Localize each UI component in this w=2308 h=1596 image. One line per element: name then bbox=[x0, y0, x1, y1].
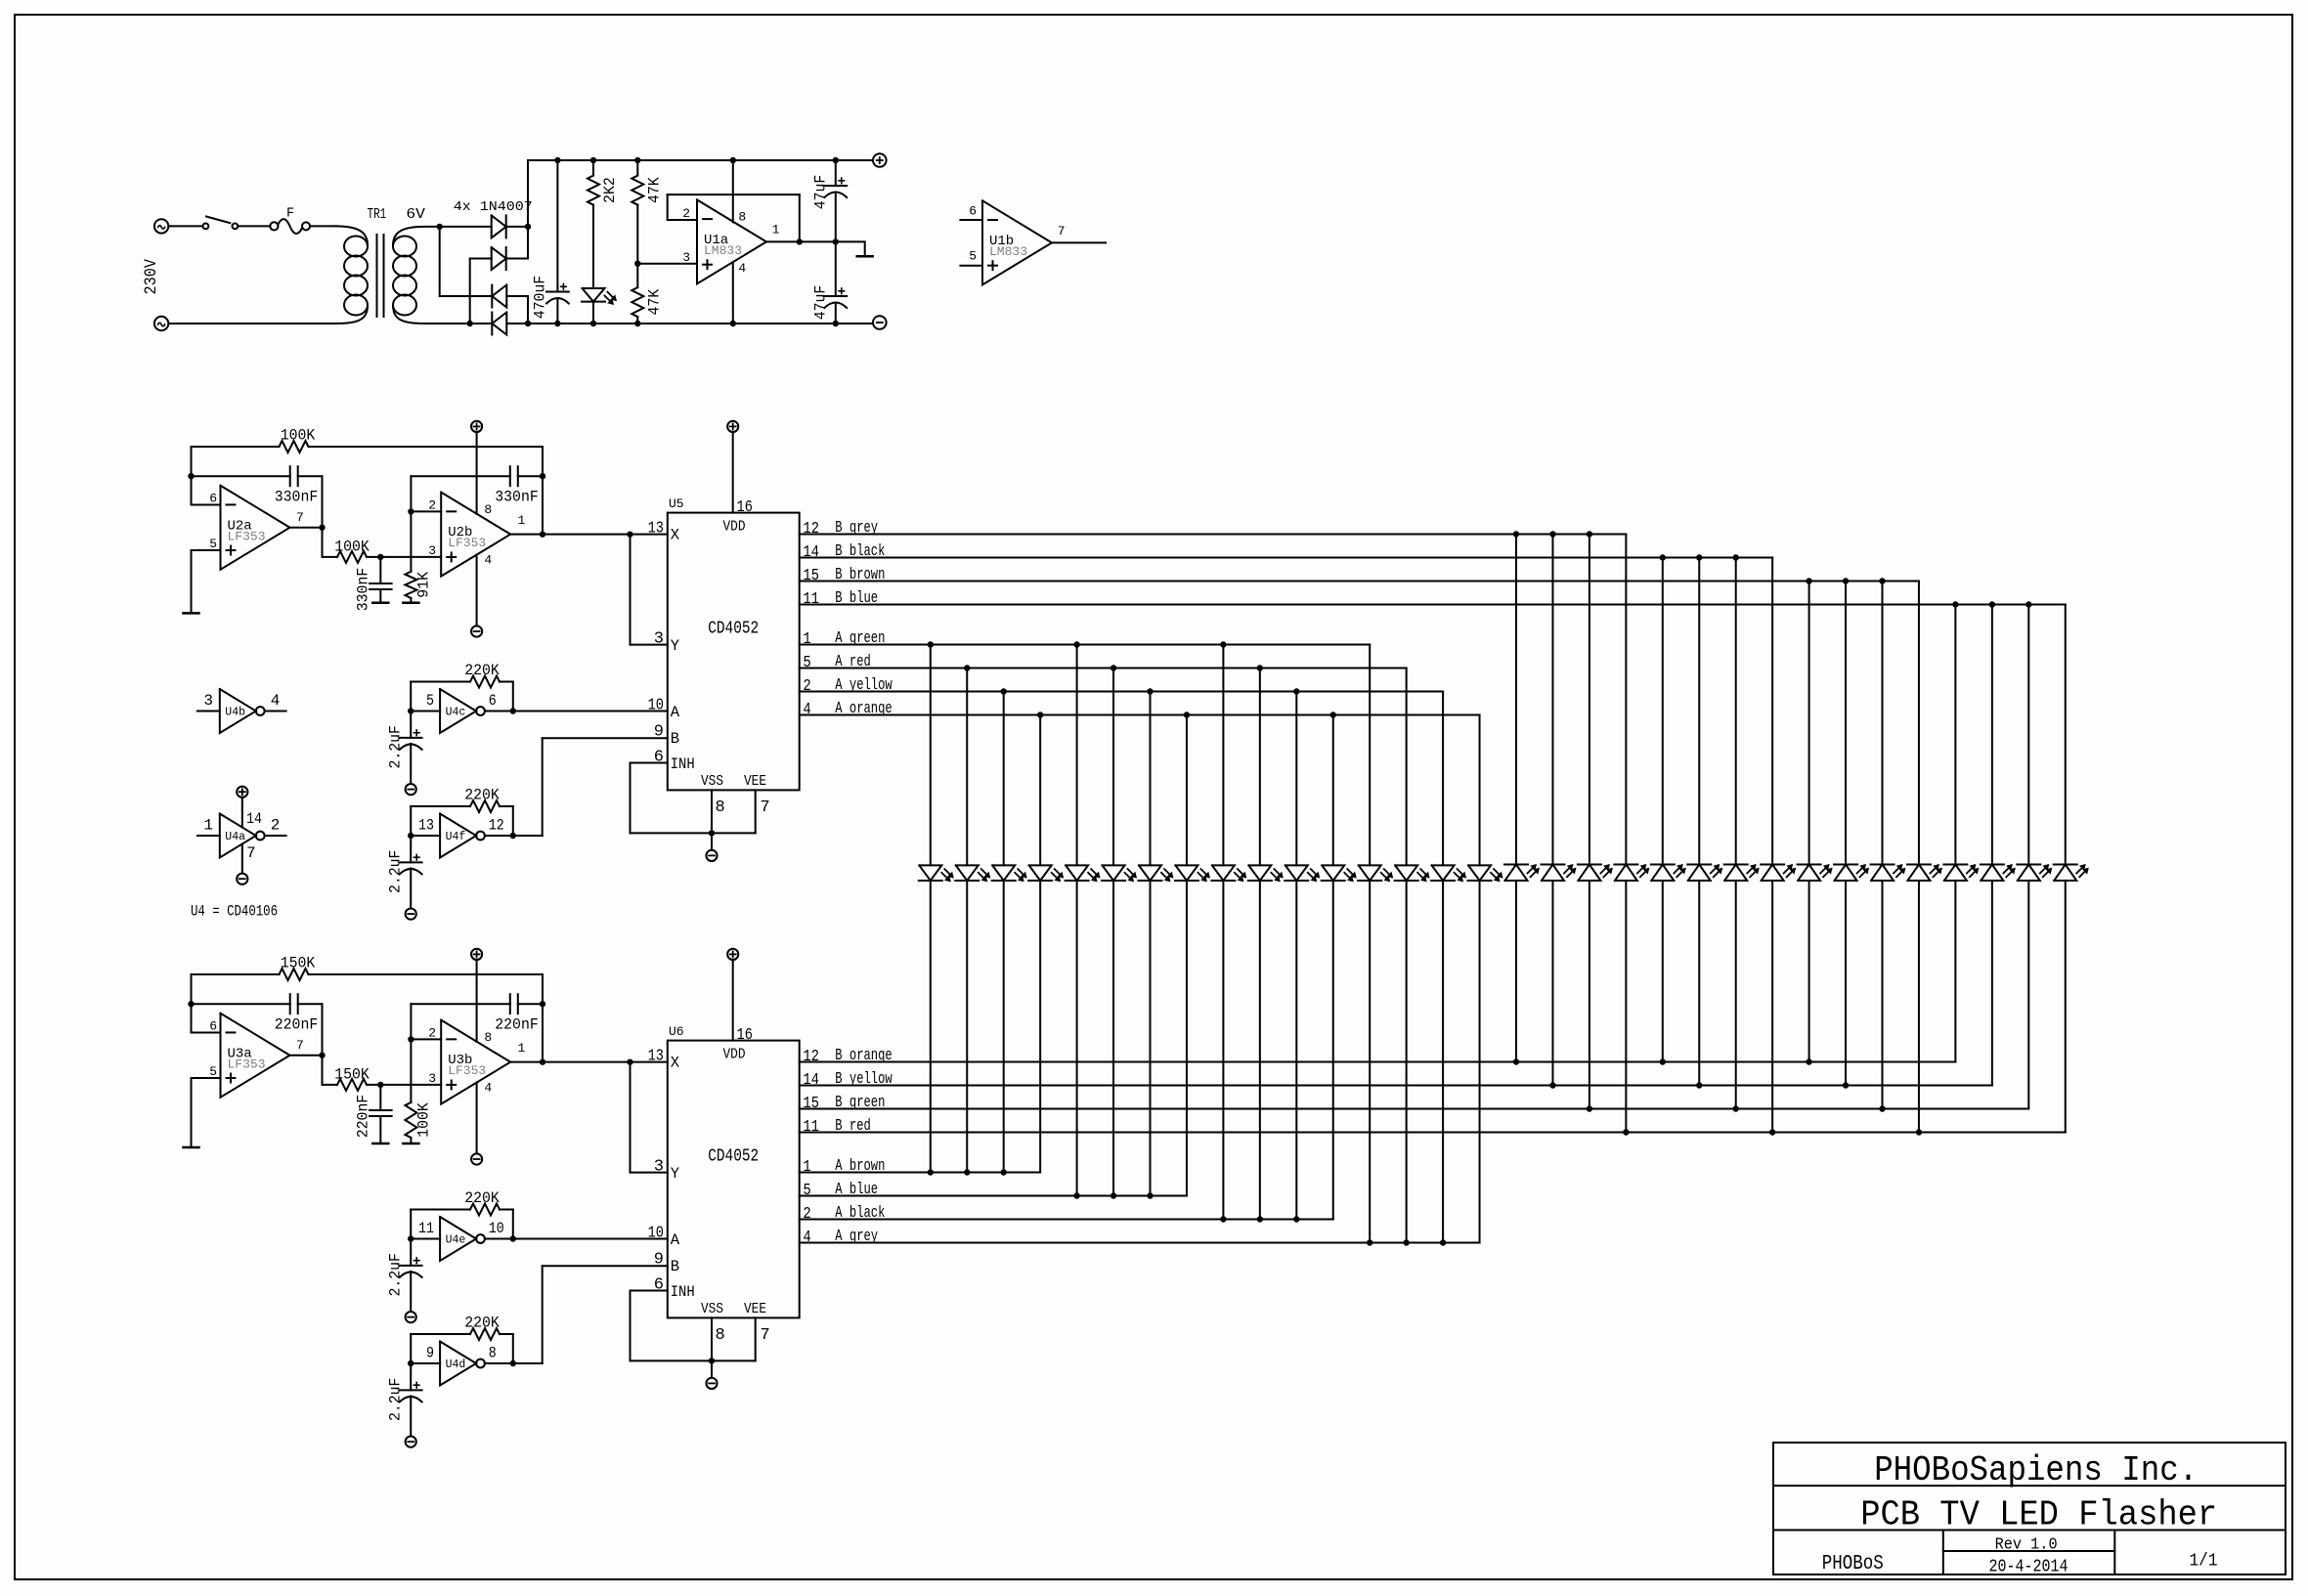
wire A black riser to LED9 bbox=[1222, 881, 1224, 1220]
LED 3 bbox=[992, 865, 1015, 881]
svg-text:220K: 220K bbox=[464, 1189, 500, 1207]
svg-text:INH: INH bbox=[671, 1283, 695, 1301]
svg-text:12: 12 bbox=[804, 520, 819, 539]
junction A yellow LED7 bbox=[1147, 688, 1153, 694]
svg-text:7: 7 bbox=[761, 798, 770, 817]
junction B black LED22 bbox=[1696, 554, 1702, 560]
svg-text:1/1: 1/1 bbox=[2190, 1552, 2218, 1572]
svg-text:7: 7 bbox=[761, 1326, 770, 1345]
svg-text:12: 12 bbox=[489, 817, 504, 835]
capacitor 220nF integrator A bbox=[192, 1003, 290, 1005]
wire AC top to switch bbox=[168, 225, 202, 227]
LED 27 bbox=[1871, 865, 1894, 882]
IC U5 CD4052 body bbox=[668, 513, 800, 791]
wire mux X to Y bbox=[630, 1062, 631, 1173]
junction B blue LED29 bbox=[1952, 601, 1958, 607]
junction feedback right bbox=[540, 473, 545, 479]
junction A red LED2 bbox=[964, 665, 970, 670]
wire D4 leads bbox=[470, 323, 493, 324]
wire D1 cathode to + node bbox=[505, 226, 528, 228]
junction B green LED23 bbox=[1733, 1105, 1739, 1111]
wire U1a output bbox=[766, 240, 864, 242]
wire feedback left vertical bbox=[191, 447, 193, 505]
junction A yellow LED11 bbox=[1293, 688, 1299, 694]
svg-text:Y: Y bbox=[671, 637, 680, 655]
wire net B yellow horizontal bbox=[800, 1085, 1992, 1087]
wire D2 anode down bbox=[469, 259, 471, 324]
svg-text:13: 13 bbox=[418, 817, 434, 835]
wire feedback right vertical bbox=[542, 447, 544, 535]
svg-text:LF353: LF353 bbox=[228, 1057, 266, 1071]
svg-text:VEE: VEE bbox=[744, 1301, 766, 1317]
svg-text:6: 6 bbox=[209, 1019, 217, 1034]
wire net B grey horizontal bbox=[800, 534, 1627, 536]
svg-text:TR1: TR1 bbox=[368, 207, 387, 223]
svg-text:220K: 220K bbox=[464, 1315, 500, 1332]
ground at 100K bbox=[403, 1143, 418, 1145]
svg-text:8: 8 bbox=[716, 1326, 725, 1345]
svg-text:4: 4 bbox=[804, 1229, 811, 1247]
wire U1b pin 6 stub bbox=[960, 219, 982, 221]
wire A grey riser to LED16 bbox=[1479, 881, 1481, 1243]
wire cap corner down to output bbox=[322, 476, 324, 528]
wire B orange riser to LED29 bbox=[1954, 881, 1956, 1062]
fuse F bbox=[270, 222, 278, 230]
junction A brown LED2 bbox=[964, 1169, 970, 1175]
wire B black drop to LED24 bbox=[1771, 558, 1773, 865]
svg-text:U4 = CD40106: U4 = CD40106 bbox=[191, 903, 278, 921]
capacitor 330nF shunt to ground bbox=[379, 557, 381, 583]
wire B blue drop to LED30 bbox=[1991, 605, 1993, 865]
svg-text:13: 13 bbox=[648, 1048, 664, 1066]
svg-text:LM833: LM833 bbox=[989, 244, 1027, 259]
svg-text:VSS: VSS bbox=[701, 1301, 723, 1317]
svg-text:8: 8 bbox=[738, 209, 746, 224]
svg-text:14: 14 bbox=[804, 543, 819, 562]
wire VDD supply U6 bbox=[732, 960, 734, 1041]
ground at U3a pin5 bbox=[184, 1146, 199, 1149]
wire net A green horizontal bbox=[800, 644, 1370, 646]
svg-text:2: 2 bbox=[804, 677, 811, 696]
resistor 220K feedback U4c bbox=[410, 682, 412, 712]
junction B orange LED21 bbox=[1660, 1058, 1666, 1064]
svg-text:LF353: LF353 bbox=[448, 536, 486, 550]
wire B red riser to LED32 bbox=[2065, 881, 2067, 1133]
switch S1 bbox=[203, 224, 209, 230]
svg-text:11: 11 bbox=[804, 590, 819, 609]
wire A black riser to LED11 bbox=[1295, 881, 1297, 1220]
svg-text:CD4052: CD4052 bbox=[708, 1147, 759, 1167]
terminal - supply U4a bbox=[237, 874, 247, 884]
svg-text:4: 4 bbox=[484, 1080, 492, 1095]
wire U2b pin2 stub bbox=[411, 510, 441, 512]
IC U6 CD4052 body bbox=[668, 1041, 800, 1318]
LED 31 bbox=[2018, 865, 2040, 882]
wire U2a pin5 stub bbox=[192, 549, 221, 551]
svg-text:4: 4 bbox=[804, 701, 811, 719]
junction output B node bbox=[540, 1058, 545, 1064]
svg-text:14: 14 bbox=[804, 1071, 819, 1090]
capacitor 470uF bbox=[556, 160, 558, 292]
LED 17 bbox=[1505, 865, 1528, 882]
junction top rail at 47K bbox=[634, 157, 640, 163]
wire U3b output to mux X bbox=[510, 1061, 668, 1063]
svg-text:10: 10 bbox=[648, 1225, 664, 1243]
LED 9 bbox=[1212, 865, 1235, 881]
svg-text:2: 2 bbox=[804, 1205, 811, 1224]
wire net A black horizontal bbox=[800, 1219, 1333, 1221]
wire U1a pin 8 supply bbox=[732, 160, 734, 222]
ground virtual GND symbol bbox=[864, 241, 866, 255]
junction A green LED1 bbox=[928, 641, 934, 647]
wire U4a pin 7 supply bbox=[241, 844, 243, 874]
op-amp U2a LF353 bbox=[221, 486, 290, 570]
junction feedback right bbox=[540, 1001, 545, 1007]
terminal + VDD U6 bbox=[727, 949, 738, 960]
wire AC1 down to D3 row bbox=[439, 227, 441, 296]
op-amp U3b LF353 bbox=[441, 1020, 510, 1104]
junction mux X node bbox=[627, 531, 632, 537]
wire A red drop to LED14 bbox=[1406, 669, 1408, 866]
junction AC1 bbox=[437, 224, 443, 230]
svg-text:CD4052: CD4052 bbox=[708, 620, 759, 639]
svg-text:1: 1 bbox=[203, 817, 213, 835]
ground at shunt capacitor bbox=[372, 601, 388, 604]
wire U4b output stub bbox=[265, 711, 286, 712]
svg-text:1: 1 bbox=[518, 513, 526, 528]
terminal - U4d cap bbox=[406, 1437, 416, 1447]
wire A grey riser to LED14 bbox=[1406, 881, 1408, 1243]
junction VSS VEE node U6 bbox=[709, 1358, 715, 1363]
junction A red LED10 bbox=[1257, 665, 1263, 670]
wire U4a pin 14 supply bbox=[241, 798, 243, 828]
svg-text:7: 7 bbox=[296, 510, 304, 525]
wire U4c input bbox=[411, 711, 440, 712]
wire B green riser to LED19 bbox=[1589, 881, 1590, 1109]
svg-text:6V: 6V bbox=[406, 206, 425, 223]
wire U2b output to mux X bbox=[510, 534, 668, 536]
wire B green riser to LED23 bbox=[1735, 881, 1737, 1109]
svg-text:8: 8 bbox=[484, 502, 492, 517]
wire B yellow riser to LED22 bbox=[1698, 881, 1700, 1086]
LED 22 bbox=[1688, 865, 1711, 882]
wire A green drop to LED13 bbox=[1369, 645, 1371, 866]
wire B yellow riser to LED26 bbox=[1845, 881, 1847, 1086]
ground at 91K bbox=[403, 601, 418, 604]
junction A black LED11 bbox=[1293, 1216, 1299, 1222]
svg-text:1: 1 bbox=[772, 223, 780, 237]
op-amp U3a LF353 bbox=[221, 1014, 290, 1098]
svg-text:U6: U6 bbox=[669, 1024, 684, 1039]
wire VEE pin U5 bbox=[755, 790, 757, 833]
junction U4d input node bbox=[408, 1360, 414, 1366]
wire B yellow riser to LED30 bbox=[1991, 881, 1993, 1086]
junction A orange LED12 bbox=[1330, 712, 1336, 717]
svg-text:10: 10 bbox=[648, 697, 664, 715]
svg-text:3: 3 bbox=[682, 250, 690, 265]
svg-text:U4b: U4b bbox=[225, 707, 245, 719]
inverter U4b CD40106 bbox=[220, 689, 256, 733]
wire net A brown horizontal bbox=[800, 1172, 1040, 1174]
svg-text:PHOBoS: PHOBoS bbox=[1822, 1553, 1884, 1575]
svg-text:10: 10 bbox=[489, 1220, 504, 1237]
wire AC bottom to transformer bbox=[168, 323, 336, 324]
LED 15 bbox=[1432, 865, 1455, 881]
junction B blue LED31 bbox=[2025, 601, 2031, 607]
junction top rail at U1a pin8 bbox=[730, 157, 736, 163]
wire U4e input bbox=[411, 1238, 440, 1240]
wire B orange riser to LED25 bbox=[1808, 881, 1810, 1062]
wire VEE pin U6 bbox=[755, 1317, 757, 1360]
svg-text:13: 13 bbox=[648, 520, 664, 539]
svg-text:3: 3 bbox=[428, 543, 436, 558]
svg-text:1: 1 bbox=[804, 1158, 811, 1177]
junction A red LED6 bbox=[1110, 665, 1116, 670]
svg-text:15: 15 bbox=[804, 567, 819, 585]
wire A orange drop to LED4 bbox=[1039, 715, 1041, 866]
svg-text:2: 2 bbox=[428, 1025, 436, 1040]
junction U1a output feedback bbox=[797, 238, 803, 244]
LED 26 bbox=[1835, 865, 1857, 882]
LED 25 bbox=[1798, 865, 1820, 882]
junction bottom rail at 47K bbox=[634, 321, 640, 326]
svg-text:2.2uF: 2.2uF bbox=[387, 1378, 405, 1422]
diode D4 1N4007 bbox=[492, 313, 506, 335]
svg-text:LF353: LF353 bbox=[228, 529, 266, 543]
wire A grey riser to LED13 bbox=[1369, 881, 1371, 1243]
LED 6 bbox=[1103, 865, 1125, 881]
wire switch to fuse bbox=[238, 225, 270, 227]
junction A brown LED1 bbox=[928, 1169, 934, 1175]
wire A yellow drop to LED3 bbox=[1003, 692, 1005, 866]
wire U1b pin 5 stub bbox=[960, 265, 982, 267]
inverter U4d CD40106 bbox=[440, 1342, 476, 1386]
wire B brown drop to LED25 bbox=[1808, 582, 1810, 865]
junction output A node bbox=[319, 1053, 325, 1058]
wire B red riser to LED20 bbox=[1625, 881, 1627, 1133]
resistor 2K2 bbox=[592, 160, 594, 175]
svg-text:3: 3 bbox=[428, 1071, 436, 1086]
wire U3b pin 8 supply bbox=[476, 960, 478, 1042]
LED 19 bbox=[1578, 865, 1600, 882]
svg-text:47uF: 47uF bbox=[812, 285, 830, 321]
terminal - supply U3b bbox=[471, 1153, 482, 1164]
junction B grey LED18 bbox=[1549, 531, 1555, 537]
svg-text:U4c: U4c bbox=[446, 707, 466, 719]
wire A blue riser to LED6 bbox=[1112, 881, 1114, 1196]
LED 24 bbox=[1762, 865, 1784, 882]
svg-text:150K: 150K bbox=[281, 955, 316, 972]
wire net B black horizontal bbox=[800, 557, 1772, 559]
junction pin2 node bbox=[408, 1036, 414, 1042]
wire U3a pin5 down bbox=[191, 1078, 193, 1147]
LED 11 bbox=[1285, 865, 1308, 881]
svg-text:12: 12 bbox=[804, 1048, 819, 1066]
junction top rail at 2K2 bbox=[590, 157, 596, 163]
svg-text:A: A bbox=[671, 1231, 680, 1249]
svg-text:220K: 220K bbox=[464, 662, 500, 679]
svg-text:11: 11 bbox=[804, 1118, 819, 1137]
svg-text:LF353: LF353 bbox=[448, 1063, 486, 1078]
junction B red LED24 bbox=[1769, 1129, 1775, 1135]
junction feedback left bbox=[188, 473, 194, 479]
wire A black riser to LED10 bbox=[1259, 881, 1261, 1220]
wire net A red horizontal bbox=[800, 668, 1407, 669]
wire pin2 node up to feedback cap bbox=[410, 1004, 412, 1039]
svg-text:Rev 1.0: Rev 1.0 bbox=[1995, 1536, 2058, 1555]
wire A brown riser to LED3 bbox=[1003, 881, 1005, 1173]
svg-text:3: 3 bbox=[654, 1158, 664, 1177]
wire A red drop to LED10 bbox=[1259, 669, 1261, 866]
wire U3b pin 4 supply bbox=[476, 1083, 478, 1154]
capacitor 220nF shunt to ground bbox=[379, 1085, 381, 1110]
wire A orange drop to LED16 bbox=[1479, 715, 1481, 866]
wire B black drop to LED23 bbox=[1735, 558, 1737, 865]
LED 21 bbox=[1651, 865, 1674, 882]
svg-text:47uF: 47uF bbox=[812, 175, 830, 210]
wire B black drop to LED22 bbox=[1698, 558, 1700, 865]
wire VSS pin U5 bbox=[711, 790, 713, 833]
wire VDD supply U5 bbox=[732, 432, 734, 513]
ground at U2a pin5 bbox=[184, 612, 199, 615]
junction B orange LED17 bbox=[1513, 1058, 1519, 1064]
wire D3 anode down bbox=[527, 296, 529, 324]
resistor 220K feedback U4f bbox=[410, 806, 412, 836]
LED 14 bbox=[1395, 865, 1417, 881]
svg-text:VSS: VSS bbox=[701, 773, 723, 790]
wire D3 anode bbox=[506, 295, 528, 297]
svg-text:8: 8 bbox=[489, 1345, 497, 1362]
LED 18 bbox=[1542, 865, 1564, 882]
wire B orange riser to LED21 bbox=[1662, 881, 1664, 1062]
capacitor 2.2uF U4e bbox=[410, 1239, 412, 1266]
LED 16 bbox=[1468, 865, 1491, 881]
svg-text:7: 7 bbox=[1058, 224, 1066, 238]
terminal + supply U2b bbox=[471, 421, 482, 432]
junction B red LED28 bbox=[1916, 1129, 1922, 1135]
svg-text:U4e: U4e bbox=[446, 1234, 466, 1247]
svg-text:100K: 100K bbox=[334, 538, 370, 555]
wire bridge + vertical bbox=[527, 160, 529, 259]
junction divider node bbox=[634, 261, 640, 267]
junction B yellow LED26 bbox=[1843, 1082, 1849, 1088]
junction pin3 node bbox=[377, 1082, 383, 1088]
wire B brown drop to LED27 bbox=[1882, 582, 1884, 865]
wire U3b pin2 stub bbox=[411, 1038, 441, 1040]
junction U4c input node bbox=[408, 708, 414, 713]
junction bridge + bbox=[525, 224, 531, 230]
terminal + supply U3b bbox=[471, 949, 482, 960]
svg-text:U4d: U4d bbox=[446, 1359, 466, 1371]
junction bottom rail at 470uF bbox=[554, 321, 560, 326]
wire B grey drop to LED19 bbox=[1589, 535, 1590, 865]
junction B brown LED27 bbox=[1879, 578, 1885, 583]
wire A orange drop to LED12 bbox=[1332, 715, 1334, 866]
wire A green drop to LED1 bbox=[930, 645, 932, 866]
resistor 91K to ground bbox=[410, 511, 412, 571]
wire A yellow drop to LED7 bbox=[1150, 692, 1152, 866]
wire cap corner down to output bbox=[322, 1004, 324, 1056]
junction A orange LED4 bbox=[1037, 712, 1043, 717]
svg-text:6: 6 bbox=[654, 749, 664, 767]
junction B orange LED25 bbox=[1806, 1058, 1811, 1064]
wire U4b input stub bbox=[197, 711, 220, 712]
svg-text:330nF: 330nF bbox=[495, 489, 539, 506]
wire pin3 node to U3b bbox=[380, 1084, 441, 1086]
svg-text:2.2uF: 2.2uF bbox=[387, 725, 405, 769]
junction bottom rail at LED bbox=[590, 321, 596, 326]
wire B red riser to LED28 bbox=[1918, 881, 1920, 1133]
wire net A grey horizontal bbox=[800, 1242, 1480, 1244]
svg-text:2.2uF: 2.2uF bbox=[387, 850, 405, 894]
capacitor 220nF integrator B bbox=[411, 1003, 509, 1005]
svg-text:100K: 100K bbox=[415, 1102, 433, 1138]
LED 1 bbox=[919, 865, 941, 881]
junction U4f input node bbox=[408, 833, 414, 839]
wire A red drop to LED6 bbox=[1112, 669, 1114, 866]
wire A brown riser to LED4 bbox=[1039, 881, 1041, 1173]
svg-text:11: 11 bbox=[418, 1220, 434, 1237]
svg-text:LM833: LM833 bbox=[704, 243, 742, 258]
svg-text:4: 4 bbox=[484, 552, 492, 567]
capacitor 330nF integrator B bbox=[411, 475, 509, 477]
junction A blue LED5 bbox=[1073, 1192, 1079, 1198]
wire A red drop to LED2 bbox=[966, 669, 968, 866]
wire U4d input bbox=[411, 1362, 440, 1364]
junction B blue LED30 bbox=[1989, 601, 1995, 607]
diode D2 1N4007 bbox=[492, 247, 506, 270]
wire net A orange horizontal bbox=[800, 714, 1480, 716]
junction A brown LED3 bbox=[1000, 1169, 1006, 1175]
svg-text:16: 16 bbox=[737, 498, 753, 517]
svg-text:5: 5 bbox=[209, 537, 217, 551]
wire A brown riser to LED2 bbox=[966, 881, 968, 1173]
wire B blue drop to LED29 bbox=[1954, 605, 1956, 865]
wire A green drop to LED9 bbox=[1222, 645, 1224, 866]
svg-text:INH: INH bbox=[671, 755, 695, 773]
wire U1a pin 4 supply bbox=[732, 262, 734, 324]
junction B brown LED26 bbox=[1843, 578, 1849, 583]
resistor 100K to ground bbox=[410, 1039, 412, 1102]
wire output A down bbox=[322, 1056, 324, 1085]
wire fuse to transformer bbox=[310, 225, 336, 227]
junction output B node bbox=[540, 531, 545, 537]
junction U4f output node bbox=[510, 833, 516, 839]
title block frame bbox=[1773, 1443, 2286, 1574]
transformer TR1 primary winding bbox=[336, 226, 368, 245]
svg-text:U4a: U4a bbox=[225, 831, 245, 843]
svg-text:220nF: 220nF bbox=[355, 1095, 372, 1139]
resistor 47K upper bbox=[636, 160, 638, 175]
wire U2b pin 8 supply bbox=[476, 432, 478, 514]
wire divider to U1a pin3 bbox=[637, 263, 697, 265]
wire net B red horizontal bbox=[800, 1132, 2066, 1134]
svg-text:2.2uF: 2.2uF bbox=[387, 1253, 405, 1297]
wire U1a pin2 feedback loop bbox=[668, 219, 697, 221]
LED 4 bbox=[1029, 865, 1052, 881]
svg-text:X: X bbox=[671, 1055, 680, 1072]
wire net A yellow horizontal bbox=[800, 691, 1443, 693]
junction A grey LED14 bbox=[1403, 1239, 1409, 1245]
svg-text:6: 6 bbox=[489, 692, 497, 710]
wire U3a output bbox=[290, 1055, 323, 1057]
junction B black LED21 bbox=[1660, 554, 1666, 560]
svg-text:2: 2 bbox=[271, 817, 281, 835]
LED 5 bbox=[1066, 865, 1088, 881]
svg-text:91K: 91K bbox=[415, 572, 433, 598]
svg-text:5: 5 bbox=[426, 692, 434, 710]
wire net B green horizontal bbox=[800, 1108, 2029, 1110]
